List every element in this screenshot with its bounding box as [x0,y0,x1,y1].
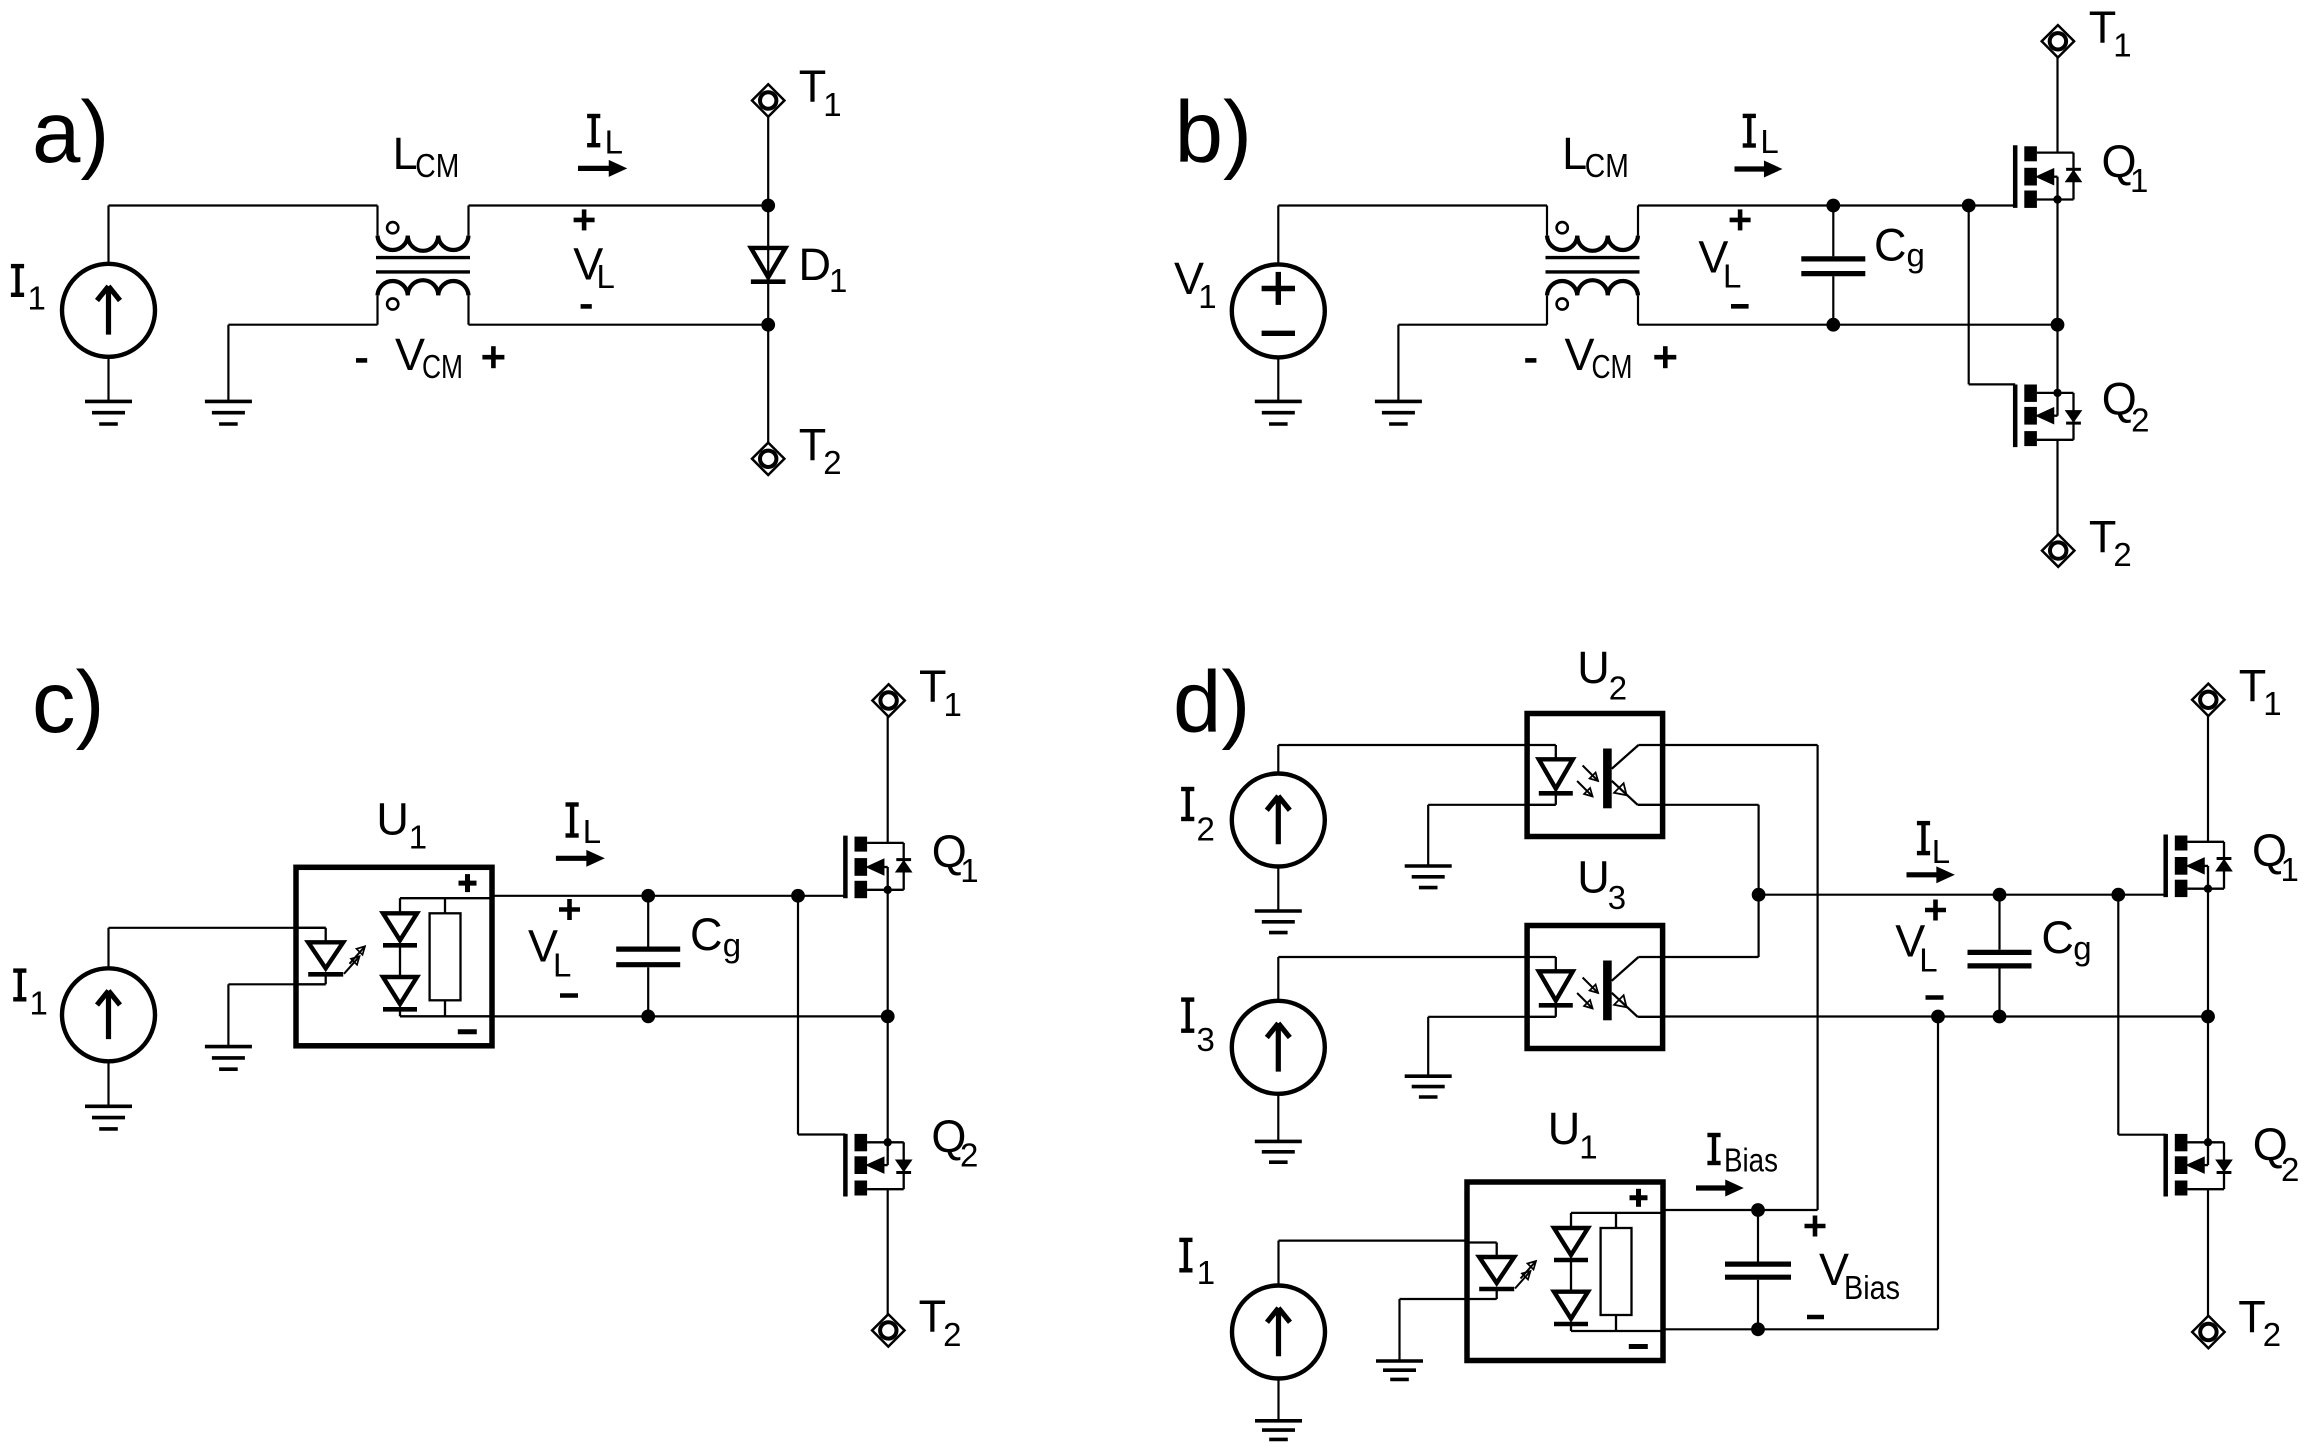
label VCM b [1525,329,1676,385]
label I1 [11,266,46,316]
svg-text:1: 1 [1197,1254,1215,1291]
label IL [587,116,623,160]
svg-text:2: 2 [1609,670,1627,707]
wire Q2 to T2 b [2056,440,2058,535]
node IL rail start [1752,888,1766,902]
label VL c [528,899,580,996]
svg-text:L: L [553,946,571,983]
svg-text:2: 2 [2263,1316,2281,1353]
svg-text:D: D [799,239,832,290]
node gate junction c [791,889,805,903]
ground below I1 d [1255,1379,1302,1440]
terminal T2 a [752,443,784,475]
wire I2 to U2 [1278,745,1527,774]
label IL d [1917,823,1950,870]
label Q1 d [2252,825,2299,888]
svg-text:L: L [1723,257,1741,294]
current source I3 [1232,1001,1325,1094]
wire top rail c [492,895,846,897]
label T2 c [919,1291,962,1353]
wire LED cathode c [228,983,296,985]
svg-text:L: L [1919,942,1937,979]
ground below V1 [1255,358,1302,424]
wire I3 to U3 [1278,957,1527,1001]
svg-text:1: 1 [2113,27,2131,64]
svg-text:CM: CM [1585,147,1629,184]
wire Q1 to Q2 b [2056,200,2058,393]
current arrow IBias [1696,1181,1742,1196]
wire I1 top [109,206,378,264]
current source I1 c [62,968,155,1061]
wire gate of Q2 c [798,896,845,1135]
ground node b2 [1375,325,1422,424]
svg-text:T: T [2089,2,2117,53]
svg-text:3: 3 [1608,879,1626,916]
svg-text:T: T [2089,511,2117,562]
svg-text:U: U [376,794,409,845]
label I1 d [1179,1240,1215,1291]
svg-text:1: 1 [944,686,962,723]
wire gate of Q2 d [2118,895,2165,1135]
ground below I1 [85,357,132,424]
wire choke to diode [469,204,769,206]
wire U3 collector [1663,895,1759,957]
current source I1 [62,264,155,357]
capacitor Cg c [616,896,680,1017]
common-mode choke LCM [376,206,470,325]
label Q2 b [2102,374,2150,439]
terminal T2 c [872,1314,904,1346]
svg-text:V: V [395,329,425,380]
svg-text:2: 2 [1197,811,1215,848]
svg-text:3: 3 [1197,1021,1215,1058]
svg-text:1: 1 [960,852,978,889]
svg-text:g: g [2073,930,2091,967]
wire Q1 to Q2 c [887,890,889,1143]
current arrow IL d [1907,868,1954,883]
label T1 b [2089,2,2132,64]
current arrow IL c [556,851,603,866]
wire gate of Q2 b [1969,206,2016,385]
label V1 [1174,253,1217,315]
svg-text:T: T [919,661,947,712]
label Q1 b [2102,136,2149,199]
label U3 [1577,852,1626,917]
label T2 b [2089,511,2132,573]
wire ground to choke b [1398,324,1547,326]
wire ground to choke [228,324,377,326]
wire U2 cathode [1428,804,1527,806]
wire T1 to Q1 d [2207,716,2209,842]
svg-text:1: 1 [2130,162,2148,199]
svg-text:2: 2 [2281,1151,2299,1188]
label LCM [393,128,460,184]
label IL c [566,805,602,850]
label VBias [1805,1216,1901,1318]
svg-text:U: U [1577,852,1610,903]
svg-text:b): b) [1175,84,1252,181]
ground below I3 [1255,1094,1302,1162]
node mid d [2201,1010,2215,1024]
transistor Q2 d [2166,1134,2232,1197]
label Cg b [1874,220,1925,274]
label T2 d [2238,1292,2281,1354]
label T1 c [919,661,962,723]
wire U1 minus rail d [1663,1017,1938,1330]
svg-text:1: 1 [2263,685,2281,722]
ground node a2 [205,325,252,424]
node gate junction d [2111,888,2125,902]
label Q1 c [932,826,979,889]
wire T2 a [767,325,769,443]
node Cg bottom c [641,1010,655,1024]
node minus to bottom rail d [1931,1010,1945,1024]
svg-text:c): c) [32,654,104,751]
node Cg top c [641,889,655,903]
capacitor Cg d [1968,895,2032,1017]
transistor Q1 d [2166,835,2232,898]
svg-text:L: L [583,813,601,850]
svg-text:T: T [919,1291,947,1342]
current source I1 d [1232,1286,1325,1379]
node gate junction b [1962,199,1976,213]
label T2 a [799,420,842,482]
node VBias bottom [1751,1322,1765,1336]
wire bottom to node a [469,324,769,326]
node bottom of D1 [761,318,775,332]
svg-text:d): d) [1173,654,1250,751]
label I1 c [13,971,48,1022]
wire Q2 to T2 d [2207,1189,2209,1316]
svg-text:C: C [2041,912,2073,963]
ground below I1 c [85,1061,132,1129]
optocoupler U2 [1527,714,1663,837]
node mid c [881,1010,895,1024]
wire U1 cathode d [1400,1298,1468,1300]
label IL b [1743,116,1779,160]
wire bottom rail b [1638,324,2058,326]
transistor Q1 c [845,836,911,899]
wire U3 cathode [1428,1016,1527,1018]
ground U1 return d [1376,1299,1423,1379]
ground U2 return [1405,805,1452,888]
svg-text:U: U [1577,642,1610,693]
wire IL rail [1759,894,2166,896]
wire I1 to U1 d [1279,1241,1468,1286]
svg-text:C: C [690,909,723,960]
label VCM [356,329,504,385]
wire T1 a [767,116,769,205]
wire I1 to U1 c [109,928,326,969]
svg-text:T: T [799,61,827,112]
label T1 a [799,61,842,123]
wire Q1 to Q2 d [2207,889,2209,1143]
svg-text:L: L [597,258,615,295]
svg-text:U: U [1548,1103,1581,1154]
label VL b [1698,209,1750,306]
svg-text:2: 2 [2131,401,2149,438]
svg-text:1: 1 [30,984,48,1021]
current arrow IL [578,161,626,176]
transistor Q2 c [845,1134,911,1197]
label Cg c [690,909,741,964]
svg-text:L: L [1932,833,1950,870]
svg-text:V: V [1565,329,1595,380]
terminal T1 d [2192,684,2224,716]
terminal T1 c [872,684,904,716]
svg-text:L: L [605,123,623,160]
svg-text:g: g [723,927,741,964]
svg-text:g: g [1907,237,1925,274]
node Cg bottom d [1993,1010,2007,1024]
svg-text:T: T [799,420,827,471]
terminal T2 b [2042,534,2074,566]
diode D1 [751,248,786,282]
svg-text:1: 1 [1198,278,1216,315]
terminal T2 d [2192,1316,2224,1348]
svg-text:1: 1 [2281,851,2299,888]
wire U1 plus to U2 collector [1663,1209,1818,1211]
label T1 d [2239,661,2282,723]
ground LED return c [205,984,252,1069]
svg-text:L: L [393,128,418,179]
ground U3 return [1405,1017,1452,1097]
wire bottom rail c [492,1015,888,1017]
current source I2 [1232,774,1325,867]
svg-text:T: T [2239,661,2267,712]
label Cg d [2041,912,2091,967]
node Cg top b [1826,199,1840,213]
photovoltaic isolator U1 c [296,867,492,1046]
svg-text:2: 2 [960,1137,978,1174]
common-mode choke LCM b [1546,206,1640,325]
svg-text:CM: CM [1592,348,1633,385]
svg-text:2: 2 [2113,536,2131,573]
svg-text:C: C [1874,220,1907,271]
label VL [573,209,615,306]
label U2 [1577,642,1627,707]
wire Q2 to T2 c [887,1189,889,1314]
label I2 [1181,789,1215,848]
wire T1 to Q1 c [887,716,889,843]
svg-text:T: T [2238,1292,2266,1343]
optocoupler U3 [1527,926,1663,1049]
svg-text:a): a) [32,84,109,181]
wire bottom rail d [1663,1015,2208,1017]
svg-text:CM: CM [422,348,463,385]
transistor Q2 b [2015,385,2081,448]
label D1 [799,239,848,299]
wire D1 branch [767,206,769,325]
node top of D1 [761,199,775,213]
svg-text:1: 1 [28,280,46,317]
photovoltaic isolator U1 d [1467,1182,1663,1361]
transistor Q1 b [2015,145,2081,208]
svg-text:1: 1 [823,86,841,123]
node Cg bottom b [1826,318,1840,332]
voltage source V1 [1232,264,1325,357]
svg-text:1: 1 [829,262,847,299]
terminal T1 a [752,84,784,116]
label VL d [1895,900,1946,998]
wire V1 top [1278,206,1547,265]
label Q2 d [2253,1119,2300,1188]
node Cg top d [1993,888,2007,902]
label U1 d [1548,1103,1598,1166]
label IBias [1707,1135,1778,1179]
ground below I2 [1255,867,1302,933]
svg-text:1: 1 [409,818,427,855]
label Q2 c [931,1111,978,1174]
wire U2 emitter [1663,805,1759,895]
svg-text:1: 1 [1579,1129,1597,1166]
svg-text:2: 2 [823,444,841,481]
wire choke to gates b [1638,204,2015,206]
wire U2 collector [1663,745,1818,1210]
label LCM b [1562,128,1629,184]
capacitor VBias [1725,1210,1791,1329]
label I3 [1181,1000,1215,1059]
node VBias top [1751,1203,1765,1217]
svg-text:Bias: Bias [1844,1269,1900,1306]
svg-text:L: L [1760,123,1778,160]
node mid b [2051,318,2065,332]
svg-text:CM: CM [415,147,459,184]
svg-text:L: L [1562,128,1587,179]
svg-text:2: 2 [943,1316,961,1353]
wire T1 to Q1 b [2056,57,2058,152]
svg-text:Bias: Bias [1724,1142,1778,1179]
current arrow IL b [1735,162,1781,177]
capacitor Cg b [1801,206,1865,325]
terminal T1 b [2042,25,2074,57]
label U1 c [376,794,427,856]
